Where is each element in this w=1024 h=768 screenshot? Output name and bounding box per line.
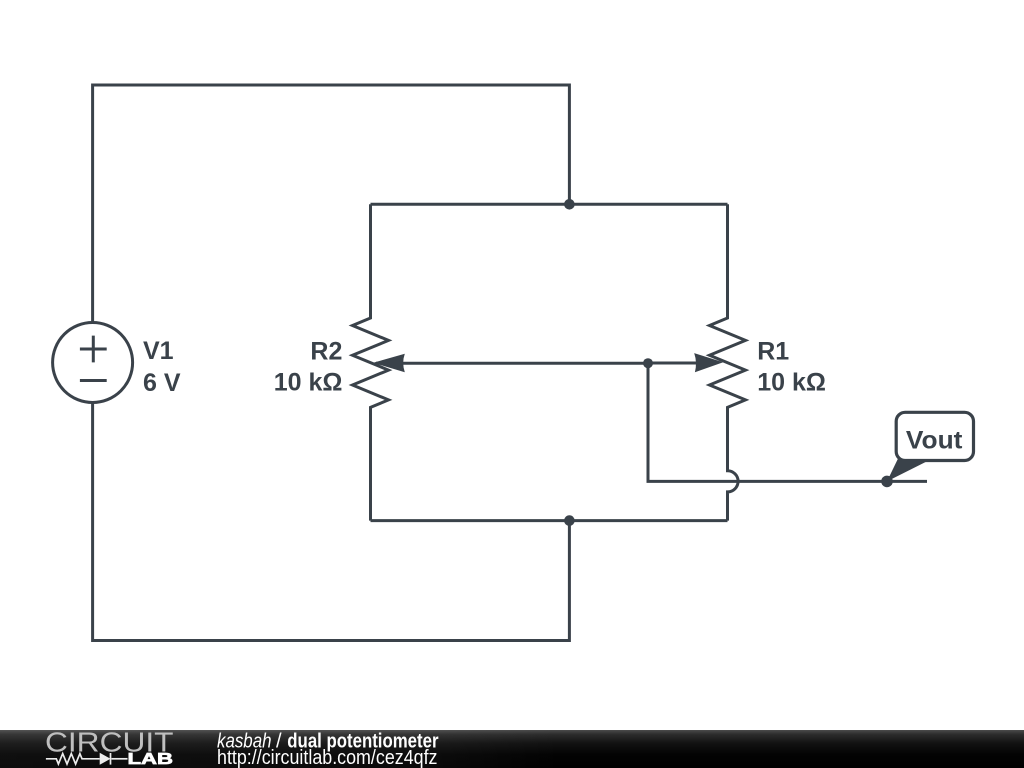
svg-text:R1: R1: [757, 337, 789, 365]
svg-text:R2: R2: [310, 337, 342, 365]
svg-text:Vout: Vout: [906, 427, 963, 455]
svg-text:10 kΩ: 10 kΩ: [274, 368, 343, 396]
svg-text:LAB: LAB: [128, 751, 174, 768]
svg-text:http://circuitlab.com/cez4qfz: http://circuitlab.com/cez4qfz: [217, 747, 438, 768]
svg-text:V1: V1: [143, 337, 174, 365]
svg-text:6 V: 6 V: [143, 369, 181, 397]
svg-text:10 kΩ: 10 kΩ: [757, 368, 826, 396]
